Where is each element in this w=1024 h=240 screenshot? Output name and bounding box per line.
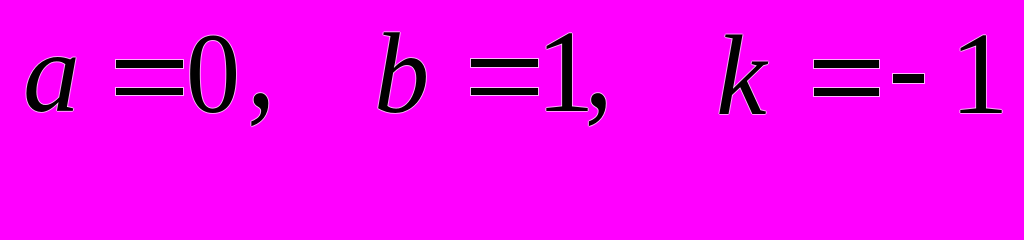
variable k xyxy=(716,19,767,133)
variable a xyxy=(23,16,80,130)
equals sign 2 (bottom bar) xyxy=(471,88,538,96)
digit 1 (end) xyxy=(950,16,1009,134)
equals sign 2 (top bar) xyxy=(471,59,538,67)
minus sign xyxy=(893,74,925,84)
digit 0 xyxy=(186,17,240,131)
equals sign 1 (bottom bar) xyxy=(116,88,183,96)
digit 1 (middle) xyxy=(536,14,595,132)
variable b xyxy=(374,17,429,131)
equals sign 3 (bottom bar) xyxy=(814,88,879,96)
comma 2 xyxy=(585,0,614,128)
equals sign 3 (top bar) xyxy=(814,60,879,68)
comma 1 xyxy=(247,0,276,128)
equals sign 1 (top bar) xyxy=(116,60,183,68)
